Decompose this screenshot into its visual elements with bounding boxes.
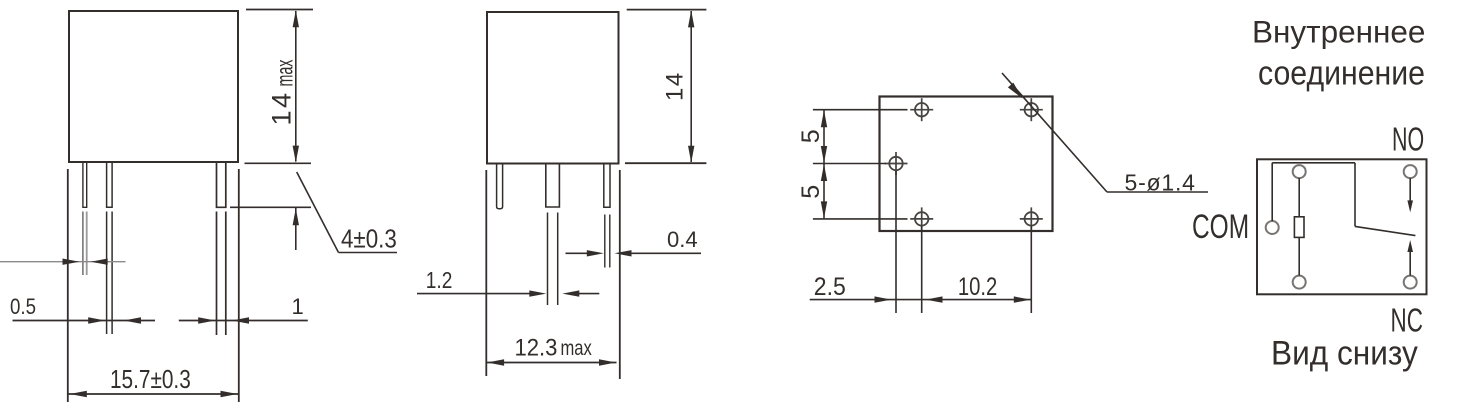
svg-text:COM: COM	[1192, 208, 1249, 246]
svg-text:12.3: 12.3	[515, 334, 558, 361]
svg-text:15.7±0.3: 15.7±0.3	[110, 365, 191, 394]
svg-text:10.2: 10.2	[958, 272, 997, 301]
svg-text:14: 14	[267, 90, 297, 125]
svg-text:Вид снизу: Вид снизу	[1271, 333, 1418, 371]
svg-text:0.4: 0.4	[667, 227, 698, 252]
svg-text:max: max	[273, 59, 298, 86]
svg-text:соединение: соединение	[1258, 54, 1425, 92]
svg-text:1.2: 1.2	[426, 268, 453, 293]
svg-text:2.5: 2.5	[814, 273, 846, 301]
svg-text:0.5: 0.5	[10, 296, 36, 320]
svg-text:5: 5	[797, 129, 825, 143]
svg-text:1: 1	[292, 294, 304, 319]
svg-text:14: 14	[662, 71, 689, 101]
svg-text:Внутреннее: Внутреннее	[1252, 13, 1425, 49]
svg-text:NO: NO	[1392, 121, 1424, 158]
svg-text:4±0.3: 4±0.3	[341, 225, 397, 254]
svg-text:5: 5	[797, 185, 825, 199]
svg-text:max: max	[561, 337, 593, 360]
svg-text:5-ø1.4: 5-ø1.4	[1125, 170, 1196, 196]
